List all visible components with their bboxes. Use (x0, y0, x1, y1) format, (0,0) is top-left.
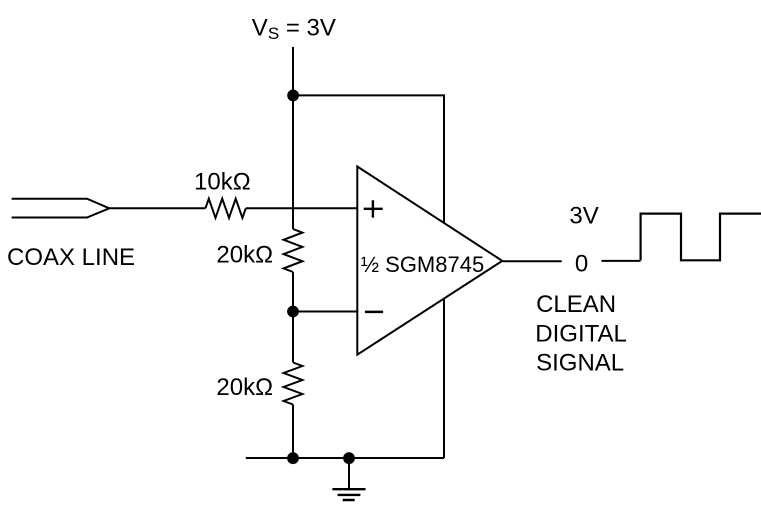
svg-text:VS = 3V: VS = 3V (252, 14, 336, 43)
svg-text:10kΩ: 10kΩ (194, 168, 251, 195)
svg-text:0: 0 (575, 251, 588, 278)
svg-text:COAX LINE: COAX LINE (7, 244, 135, 271)
svg-text:SIGNAL: SIGNAL (536, 350, 624, 377)
svg-text:20kΩ: 20kΩ (216, 241, 273, 268)
svg-text:20kΩ: 20kΩ (216, 374, 273, 401)
svg-text:½ SGM8745: ½ SGM8745 (361, 252, 485, 277)
svg-text:CLEAN: CLEAN (536, 291, 616, 318)
svg-text:DIGITAL: DIGITAL (535, 321, 627, 348)
svg-text:3V: 3V (569, 202, 598, 229)
